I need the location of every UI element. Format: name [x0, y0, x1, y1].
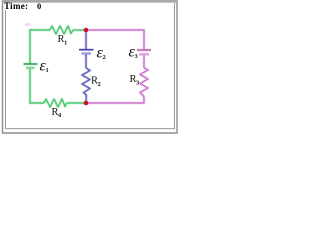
label E3	[129, 44, 139, 61]
outer frame	[3, 1, 178, 133]
label R1	[58, 34, 68, 47]
battery E3 long plate	[137, 49, 151, 52]
resistor R4	[44, 99, 67, 107]
node: bottom junction	[84, 101, 89, 106]
label R4	[52, 107, 63, 119]
label E2	[97, 45, 106, 62]
wire: left branch top (corner to R1)	[30, 30, 50, 64]
label R3	[130, 74, 141, 87]
wire: R2 to bottom junction	[85, 95, 88, 103]
wire: R4 to bottom junction	[67, 102, 87, 105]
battery E3 short plate	[139, 53, 149, 56]
svg-text:Time:: Time:	[4, 1, 28, 11]
label R2	[91, 76, 101, 89]
svg-text:1: 1	[64, 40, 67, 47]
resistor R1	[50, 26, 73, 34]
svg-text:2: 2	[103, 54, 106, 61]
battery E2 long plate	[79, 48, 94, 51]
wire: R3 to bottom corner and left to junction	[86, 97, 144, 104]
inner frame	[6, 2, 175, 129]
svg-text:3: 3	[135, 53, 139, 60]
resistor R2	[82, 68, 90, 95]
wire: E3 to R3	[143, 55, 146, 68]
frame top soft edge	[2, 1, 177, 3]
svg-text:1: 1	[46, 67, 49, 74]
wire: R1 to top junction	[73, 29, 86, 32]
svg-text:4: 4	[58, 112, 62, 119]
wire: left branch bottom	[30, 69, 44, 103]
wire: middle branch top	[85, 30, 88, 49]
resistor R3	[140, 68, 148, 97]
faint pink smudge	[0, 0, 1, 1]
node: top junction	[84, 28, 89, 33]
label E1	[40, 58, 49, 75]
battery E1 short plate	[26, 66, 35, 69]
wire: E2 to R2	[85, 55, 88, 69]
battery E1 long plate	[24, 63, 38, 66]
svg-text:0: 0	[37, 1, 41, 11]
wire: top right (junction to corner, down to E3)	[86, 30, 144, 49]
battery E2 short plate	[82, 52, 92, 55]
svg-text:2: 2	[98, 81, 101, 88]
